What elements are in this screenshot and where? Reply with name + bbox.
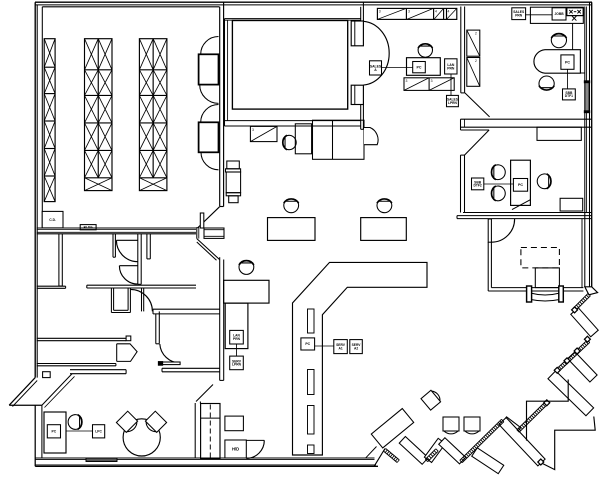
sales desk — [407, 58, 441, 76]
hall wall V6 — [141, 288, 143, 311]
pier P8big — [499, 418, 545, 466]
leader LANPRN to SALES LPRN — [450, 74, 452, 95]
window strip W1 — [573, 293, 588, 308]
counter slot 4 — [308, 445, 315, 454]
hatched cabinet 3 (mid) — [250, 126, 277, 141]
closet door leaf 1 — [116, 239, 137, 241]
roomA top wall — [37, 337, 126, 339]
svg-text:PC: PC — [417, 65, 422, 69]
office1 desk partition line — [572, 24, 574, 50]
SALES LPRN label — [447, 95, 459, 106]
office2 left wall — [460, 155, 462, 212]
pier P7 — [439, 438, 466, 464]
post valley — [538, 459, 544, 465]
leader PC to SBB DTF1 — [567, 69, 569, 89]
room3 left wall — [487, 242, 489, 291]
svg-text:BLDG: BLDG — [84, 225, 94, 229]
leader SBBDTF2 to PC — [484, 183, 514, 185]
office2 bottom wall — [463, 212, 592, 214]
left wall below notch — [34, 405, 36, 466]
storage rack R1 — [44, 39, 55, 202]
office2 chair west2 — [492, 186, 506, 201]
hd box small — [225, 416, 244, 431]
storage rack R2 — [85, 39, 113, 191]
hatched cabinet 2 (lower) — [467, 58, 480, 87]
office2 desk — [511, 160, 531, 205]
office2 top shelf — [537, 127, 581, 140]
office1 top counter — [530, 7, 583, 23]
cart/copier — [227, 161, 240, 169]
svg-text:PRN: PRN — [233, 337, 241, 341]
leader PC to LPC — [66, 430, 93, 432]
hall wall H3 — [87, 284, 196, 286]
office2 corner diagonal — [465, 130, 490, 155]
bottom wall (double pair) — [35, 457, 374, 459]
svg-text:LPRN: LPRN — [232, 363, 242, 367]
cabinet row top (hatched cells 3/3/4/4) — [377, 8, 456, 19]
svg-text:4: 4 — [448, 9, 450, 13]
open office desk 1 — [268, 218, 316, 241]
conference room left wall — [224, 19, 226, 126]
copier small rect — [295, 124, 311, 154]
open office chair 1 — [284, 199, 299, 213]
bl desk — [44, 412, 66, 453]
round table — [123, 419, 160, 456]
entrance notch diag outer — [9, 378, 35, 406]
conference table — [232, 21, 347, 110]
office1 door leaf — [465, 93, 490, 117]
H/D label box — [225, 440, 246, 458]
office2 corner cabinet — [560, 198, 583, 211]
corner chair X — [572, 16, 576, 21]
closet2 box — [110, 288, 112, 313]
room wall H2 — [37, 285, 66, 287]
conference room bottom wall — [225, 120, 361, 122]
LPC box — [93, 425, 105, 438]
hd door leaf 2 — [246, 439, 264, 441]
hatched cabinet 2 (upper) — [467, 30, 480, 56]
pier Pa slab — [472, 448, 504, 474]
post W2a — [574, 348, 580, 354]
leader counter PC to SERV — [315, 345, 334, 347]
svg-text:DTF2: DTF2 — [474, 184, 482, 188]
lanprn cabinet — [225, 303, 248, 349]
warehouse inner left line — [41, 7, 43, 228]
door jamb lower — [351, 85, 363, 104]
bl chair — [68, 415, 82, 430]
open office chair 2 — [377, 199, 392, 213]
notch step piece — [43, 372, 51, 378]
hd wall — [194, 403, 196, 458]
window strip W8 — [517, 401, 546, 430]
svg-text:PC: PC — [518, 183, 523, 187]
office2 PC box — [513, 179, 527, 192]
svg-text:PRN: PRN — [447, 66, 455, 70]
office1 chair north — [551, 34, 566, 48]
lanprn desk — [224, 280, 269, 303]
window strip W5 — [428, 451, 439, 462]
table chair right — [143, 411, 166, 434]
SALES A label — [370, 61, 382, 75]
svg-text:4: 4 — [435, 9, 437, 13]
svg-text:2: 2 — [475, 59, 477, 63]
closet wall V3 — [112, 234, 114, 257]
roomA cap — [126, 336, 131, 341]
door arc A5 — [160, 344, 180, 363]
counter PC box — [301, 338, 315, 350]
roomA bottom wall — [37, 363, 116, 365]
leader SALESPRN to counter — [525, 14, 552, 16]
svg-text:PRN: PRN — [515, 14, 523, 18]
window strip W2 — [556, 340, 588, 370]
outer wall right (double pair) — [589, 2, 591, 287]
hd door leaf — [196, 385, 213, 402]
office partition wall x463 — [460, 7, 462, 93]
stub wall under A5 — [160, 362, 180, 365]
arrow door — [117, 344, 137, 362]
post PAa — [584, 336, 590, 342]
room wall V5 — [146, 234, 148, 259]
leader SALES A to PC — [382, 67, 413, 69]
closet2 door arc — [130, 289, 152, 311]
pier PB — [568, 352, 597, 382]
closet door arc 1 — [116, 240, 137, 261]
window right wall — [584, 81, 589, 83]
svg-text:DTF1: DTF1 — [565, 94, 573, 98]
wall turn diag — [374, 449, 385, 467]
pier PA — [571, 308, 598, 337]
conference door swing arc — [363, 21, 389, 85]
conference room right wall lower — [360, 101, 362, 129]
bench post right — [559, 286, 564, 302]
pier P6 — [424, 438, 445, 462]
pier PC big — [548, 371, 594, 416]
hall wall H4 — [153, 308, 220, 310]
hd cabinet — [201, 404, 220, 460]
svg-text:PC: PC — [305, 342, 310, 346]
copier round end — [364, 128, 378, 145]
room3 door leaf — [488, 219, 491, 242]
room3 bottom wall — [488, 290, 583, 292]
conference room top wall — [225, 18, 361, 20]
inner step 1 — [527, 380, 569, 441]
counter slot 2 — [308, 370, 315, 395]
pier P5 — [399, 437, 428, 465]
office inner right wall — [584, 7, 586, 287]
junction stub — [196, 227, 198, 239]
post W2b — [564, 358, 570, 364]
post W2c — [554, 367, 560, 373]
bl PC box — [47, 425, 60, 438]
conference room right wall upper — [360, 7, 362, 21]
C.D. cabinet — [42, 211, 63, 228]
bench post left — [527, 286, 532, 302]
window strip W6 long — [462, 422, 504, 463]
svg-text:A2: A2 — [354, 346, 358, 350]
svg-text:3: 3 — [379, 9, 381, 13]
post W8a — [544, 400, 550, 406]
showroom chair 3 — [464, 417, 480, 434]
SERV A1 label — [334, 340, 348, 354]
svg-text:JOBB: JOBB — [554, 12, 564, 16]
door jamb upper — [351, 21, 363, 46]
SERV LPRN label — [230, 356, 244, 370]
room3 door arc — [491, 219, 514, 242]
sales chair — [418, 44, 432, 57]
svg-text:3: 3 — [431, 79, 433, 83]
svg-text:C.D.: C.D. — [49, 218, 56, 222]
office1 chair south — [539, 76, 554, 90]
svg-text:PC: PC — [565, 60, 570, 64]
BLDG tag — [80, 225, 96, 230]
office1 desk (round end) — [534, 50, 580, 73]
counter slot 3 — [308, 406, 315, 435]
room3 right wall inner line — [581, 219, 583, 288]
sales cabinet row (hatched 3/3) — [404, 78, 454, 91]
warehouse south wall — [37, 227, 196, 229]
pier P9 small — [500, 417, 520, 436]
window strip W4 — [384, 451, 398, 462]
conference west door unit 2 — [201, 105, 219, 123]
lanprn chair — [239, 261, 254, 275]
copier chair — [283, 135, 296, 149]
storage rack R3 — [139, 39, 167, 191]
outer wall top (double line) — [35, 1, 592, 3]
office1/2 partition wall y118-127 — [461, 118, 593, 120]
outer wall left — [34, 2, 36, 377]
door leaf V7 — [155, 314, 157, 344]
SBB DTF2 label — [472, 178, 484, 190]
entrance notch bottom — [9, 404, 42, 406]
counter slot 1 — [308, 309, 315, 333]
svg-text:3: 3 — [408, 9, 410, 13]
warehouse door leaf — [198, 207, 220, 228]
svg-text:2: 2 — [475, 32, 477, 36]
south wall end piece — [204, 228, 224, 238]
open office desk 2 — [361, 218, 407, 241]
office top wall right — [162, 367, 220, 369]
office1 PC box — [561, 55, 574, 69]
room wall V1 — [58, 234, 60, 286]
corridor diagonal wall — [197, 239, 220, 260]
reception counter — [535, 268, 559, 288]
SALES PRN label — [512, 8, 526, 20]
svg-text:LPRN: LPRN — [448, 101, 458, 105]
entrance notch diag inner — [13, 381, 38, 407]
warehouse inner top line — [42, 6, 219, 8]
corner cut right wall — [585, 287, 598, 295]
center wall lower — [219, 257, 221, 380]
svg-text:3: 3 — [252, 128, 254, 132]
warehouse east wall — [219, 7, 221, 207]
entrance funnel diagonal — [42, 374, 72, 406]
svg-text:PC: PC — [52, 429, 57, 433]
svg-text:A1: A1 — [338, 346, 342, 350]
corner desk — [567, 8, 584, 16]
dashed rect (reception) — [521, 248, 560, 268]
door stub — [200, 213, 204, 228]
svg-text:H/D: H/D — [232, 446, 239, 451]
SERV A2 label — [350, 340, 363, 354]
office top wall left — [70, 369, 126, 371]
showroom chair 2 — [443, 417, 459, 434]
hd door arc — [246, 440, 264, 458]
bottom wall door band — [86, 458, 117, 462]
leader to SERV LPRN — [236, 344, 238, 356]
closet door leaf 2 — [119, 265, 137, 267]
office2 chair east — [537, 174, 551, 189]
JOBB label — [552, 8, 566, 20]
SBB DTF1 label — [563, 89, 576, 100]
pier P4 big fin — [371, 409, 413, 448]
copier big rect — [313, 120, 365, 159]
closet door arc 2 — [119, 266, 137, 284]
service counter outline — [293, 262, 428, 455]
conference west door unit 1 — [201, 37, 219, 55]
table chair left — [116, 411, 139, 434]
inner step 2 — [543, 417, 596, 470]
bench seat — [532, 293, 559, 295]
post W1a — [572, 307, 578, 313]
LAN PRN label — [445, 59, 457, 74]
svg-text:3: 3 — [406, 79, 408, 83]
office2 chair west1 — [492, 165, 506, 180]
closet wall V4 — [137, 234, 139, 284]
svg-text:LPC: LPC — [95, 429, 102, 433]
sales PC box — [413, 62, 426, 73]
showroom chair 1 — [421, 389, 443, 411]
LAN PRN label 2 — [230, 330, 244, 344]
